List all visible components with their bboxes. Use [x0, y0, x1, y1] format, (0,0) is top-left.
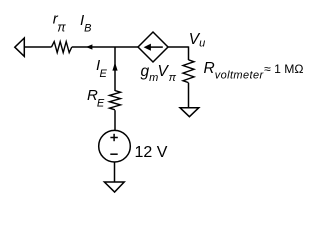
- svg-text:IB: IB: [80, 12, 92, 35]
- resistor r_pi: [52, 42, 72, 53]
- input port arrow: [15, 38, 24, 56]
- wire node down to R_E: [114, 47, 116, 91]
- wire node to dependent source: [115, 46, 138, 48]
- wire corner down: [188, 46, 190, 60]
- wire port to resistor: [24, 46, 51, 48]
- svg-text:≈ 1 MΩ: ≈ 1 MΩ: [264, 62, 304, 76]
- wire source to ground: [114, 162, 116, 182]
- wire resistor to ground: [188, 83, 190, 108]
- wire source to Vu corner: [168, 46, 189, 48]
- ground (right): [180, 108, 199, 117]
- ground (bottom): [104, 182, 124, 192]
- plus sign: [110, 137, 117, 139]
- minus sign: [110, 153, 117, 155]
- resistor R_voltmeter: [183, 60, 194, 83]
- svg-text:12 V: 12 V: [135, 144, 168, 161]
- dependent current source gmVpi diamond: [138, 32, 168, 62]
- wire R_E to source: [114, 110, 116, 130]
- svg-text:Vu: Vu: [189, 31, 205, 50]
- current arrow I_E: [112, 62, 117, 70]
- svg-text:RE: RE: [87, 87, 105, 110]
- wire resistor to node: [72, 46, 115, 48]
- current arrow I_B: [86, 44, 93, 49]
- resistor R_E: [110, 91, 121, 110]
- svg-text:Rvoltmeter: Rvoltmeter: [204, 60, 265, 82]
- arrow inside source: [148, 46, 163, 48]
- svg-text:gmVπ: gmVπ: [141, 63, 177, 84]
- svg-text:rπ: rπ: [53, 10, 67, 34]
- svg-text:IE: IE: [96, 57, 107, 80]
- voltage source 12V circle: [99, 130, 131, 162]
